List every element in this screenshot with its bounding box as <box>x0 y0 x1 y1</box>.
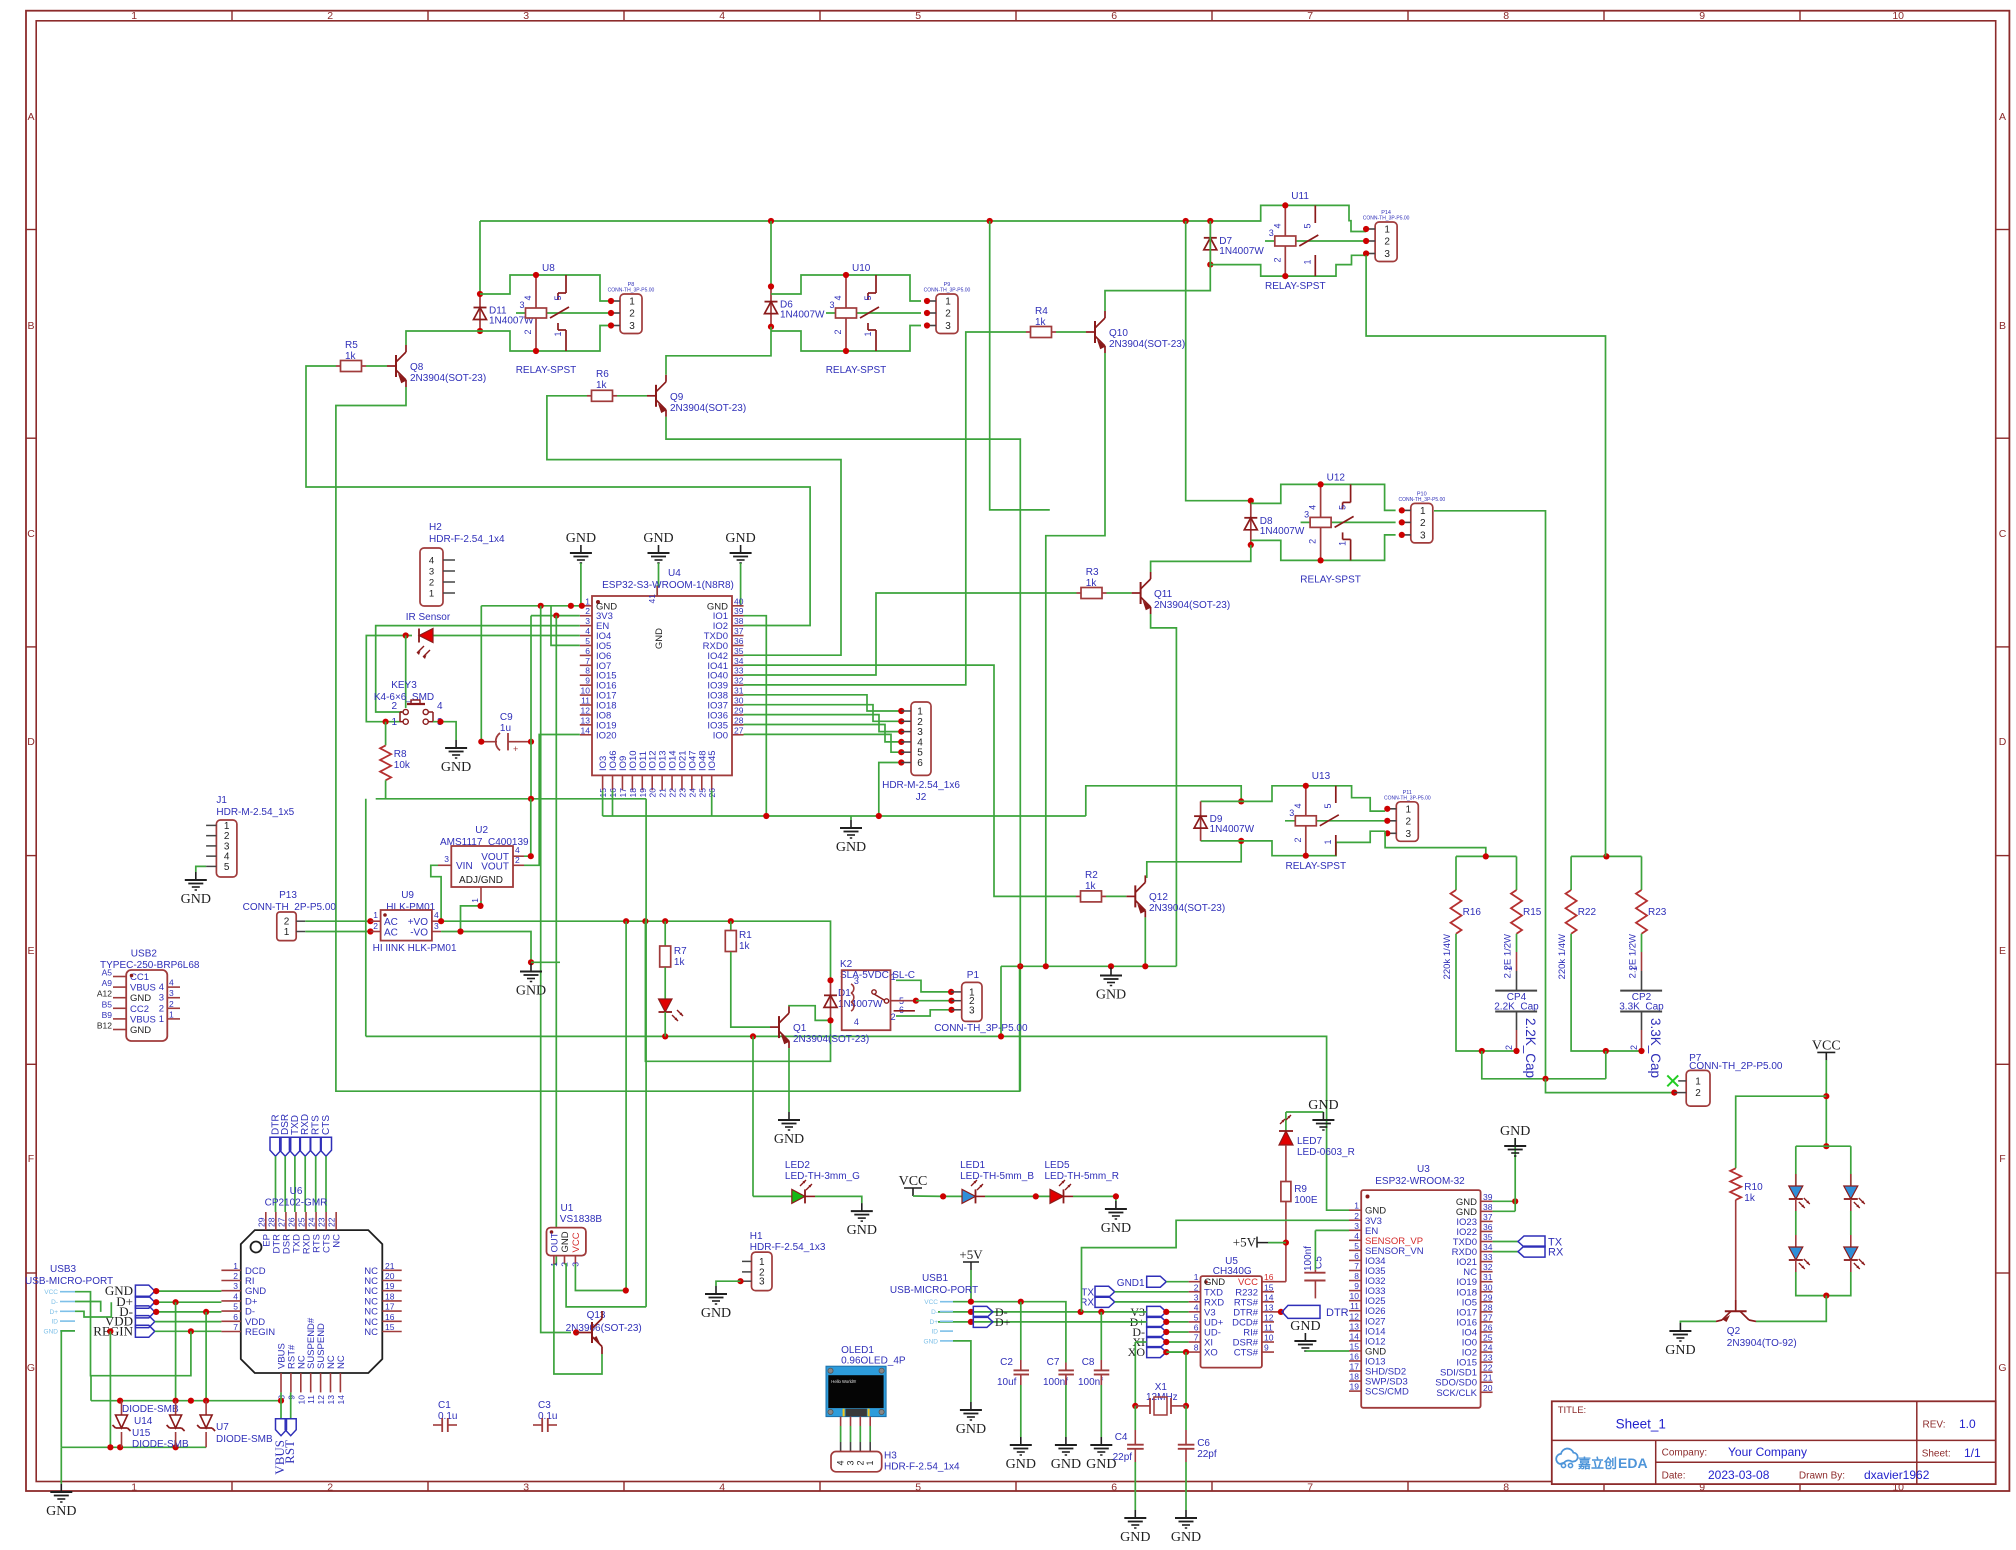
wire LED7 top gnd <box>1286 1111 1324 1113</box>
svg-text:1: 1 <box>1629 966 1639 971</box>
wire J2 bundle <box>744 695 902 711</box>
svg-text:K4-6×6_SMD: K4-6×6_SMD <box>374 692 434 703</box>
diode D8 1N4007W <box>1250 501 1252 545</box>
svg-text:RELAY-SPST: RELAY-SPST <box>1300 574 1361 585</box>
svg-text:2: 2 <box>1420 518 1426 529</box>
wire Q1 emitter <box>788 1048 790 1112</box>
wire Q10 collector <box>1105 221 1210 311</box>
svg-text:DTR: DTR <box>1326 1307 1349 1319</box>
svg-text:8: 8 <box>1503 10 1509 22</box>
ground Q2 <box>1679 1323 1681 1331</box>
svg-text:AC: AC <box>384 917 398 928</box>
ground U9 <box>530 964 532 972</box>
svg-text:Q2: Q2 <box>1727 1326 1741 1337</box>
resistor R1 1k <box>730 921 732 930</box>
svg-text:D+: D+ <box>50 1309 59 1316</box>
wire +VO rail <box>441 921 830 980</box>
svg-text:B12: B12 <box>97 1021 112 1031</box>
svg-text:23: 23 <box>317 1217 327 1227</box>
transistor Q12 2N3904 <box>1134 885 1136 907</box>
wire VCC to R10 <box>1736 1096 1827 1168</box>
svg-text:22pf: 22pf <box>1113 1452 1133 1463</box>
svg-text:CTS#: CTS# <box>1234 1348 1259 1359</box>
wire K2 pin2 to P1 <box>896 1010 952 1016</box>
svg-text:10: 10 <box>1264 1333 1274 1343</box>
svg-text:3: 3 <box>1354 1221 1359 1231</box>
svg-text:HDR-M-2.54_1x6: HDR-M-2.54_1x6 <box>882 780 960 791</box>
svg-text:12: 12 <box>581 705 591 715</box>
svg-text:A5: A5 <box>102 968 113 978</box>
svg-text:1: 1 <box>391 717 397 728</box>
svg-text:14: 14 <box>336 1395 346 1405</box>
svg-text:GND: GND <box>1171 1530 1201 1545</box>
svg-text:34: 34 <box>1483 1242 1493 1252</box>
ground USB1 <box>970 1402 972 1410</box>
net flags TX RX U3 <box>1493 1241 1518 1243</box>
wire Q12 base <box>1106 895 1126 897</box>
svg-text:29: 29 <box>256 1217 266 1227</box>
svg-text:3: 3 <box>1194 1292 1199 1302</box>
svg-text:41: 41 <box>647 594 657 604</box>
svg-text:HDR-F-2.54_1x4: HDR-F-2.54_1x4 <box>884 1462 960 1473</box>
svg-text:6: 6 <box>1111 1482 1117 1494</box>
wire XO row drop <box>1166 1351 1186 1353</box>
svg-text:P1: P1 <box>967 970 980 981</box>
svg-text:31: 31 <box>1483 1272 1493 1282</box>
svg-text:CONN-TH_3P-P5.00: CONN-TH_3P-P5.00 <box>934 1023 1028 1034</box>
svg-text:220k 1/4W: 220k 1/4W <box>1442 934 1453 979</box>
svg-text:R8: R8 <box>394 749 407 760</box>
svg-text:RELAY-SPST: RELAY-SPST <box>1286 861 1347 872</box>
svg-text:1: 1 <box>169 1009 174 1019</box>
svg-text:+: + <box>513 744 518 754</box>
svg-text:7: 7 <box>1307 10 1313 22</box>
ground above U4 right <box>740 545 742 553</box>
svg-text:ESP32-S3-WROOM-1(N8R8): ESP32-S3-WROOM-1(N8R8) <box>602 580 734 591</box>
svg-text:1: 1 <box>1338 541 1348 546</box>
svg-text:2: 2 <box>855 1460 865 1465</box>
svg-text:32: 32 <box>734 676 744 686</box>
svg-text:4: 4 <box>159 982 164 993</box>
svg-text:7: 7 <box>1194 1333 1199 1343</box>
svg-text:2N3904(SOT-23): 2N3904(SOT-23) <box>1149 903 1225 914</box>
svg-text:dxavier1962: dxavier1962 <box>1864 1468 1930 1482</box>
svg-text:11: 11 <box>1350 1301 1359 1311</box>
svg-text:16: 16 <box>385 1312 395 1322</box>
resistor R2 1k <box>1076 895 1081 897</box>
svg-text:GND: GND <box>1006 1457 1036 1472</box>
wire bridge mid <box>1795 1211 1797 1235</box>
svg-text:4: 4 <box>719 1482 725 1494</box>
diode U10_D wire stairs <box>771 275 846 294</box>
svg-text:15: 15 <box>385 1322 395 1332</box>
svg-text:Hello World!!!: Hello World!!! <box>831 1379 856 1384</box>
svg-text:B: B <box>27 320 34 332</box>
svg-text:16: 16 <box>1350 1351 1360 1361</box>
svg-text:KEY3: KEY3 <box>391 680 417 691</box>
svg-text:28: 28 <box>734 715 744 725</box>
svg-text:18: 18 <box>1350 1372 1360 1382</box>
svg-text:2: 2 <box>1308 539 1318 544</box>
ground LED7 <box>1322 1112 1324 1120</box>
svg-text:1: 1 <box>759 1257 765 1268</box>
svg-text:10: 10 <box>296 1395 306 1405</box>
svg-text:GND: GND <box>1500 1124 1530 1139</box>
svg-text:VCC: VCC <box>899 1174 928 1189</box>
svg-text:1u: 1u <box>500 723 511 734</box>
transistor Q11 2N3904 <box>1140 582 1142 604</box>
wire 3V3 route <box>1082 1220 1350 1312</box>
svg-text:GND: GND <box>847 1223 877 1238</box>
svg-text:P13: P13 <box>279 890 297 901</box>
wire U1 pin3 vcc <box>575 1264 625 1291</box>
svg-text:1: 1 <box>585 596 590 606</box>
wire D- row <box>1009 1321 1011 1323</box>
svg-text:10: 10 <box>1350 1291 1360 1301</box>
svg-text:100nf: 100nf <box>1078 1377 1103 1388</box>
diode D1 1N4007W <box>830 980 832 1020</box>
svg-text:U3: U3 <box>1417 1164 1430 1175</box>
svg-text:K2: K2 <box>840 959 853 970</box>
svg-text:ESP32-WROOM-32: ESP32-WROOM-32 <box>1375 1176 1465 1187</box>
svg-text:2: 2 <box>629 309 635 320</box>
svg-text:13: 13 <box>1264 1302 1274 1312</box>
transistor Q10 2N3904 <box>1094 321 1096 343</box>
svg-text:5: 5 <box>224 862 230 873</box>
wire U2 vout2 to IO20 <box>524 735 580 866</box>
svg-text:GND: GND <box>924 1338 939 1345</box>
svg-text:GND: GND <box>181 892 211 907</box>
svg-text:嘉立创: 嘉立创 <box>1577 1456 1617 1471</box>
svg-text:R6: R6 <box>596 369 609 380</box>
ground above U4 left <box>580 545 582 553</box>
resistor R4 1k <box>1026 331 1031 333</box>
svg-text:Q11: Q11 <box>1154 589 1173 600</box>
wire GND emitter rail <box>1001 965 1176 967</box>
svg-text:37: 37 <box>1483 1212 1493 1222</box>
svg-text:LED1: LED1 <box>960 1160 985 1171</box>
resistor R22 220k <box>1570 856 1572 890</box>
wire bridge to Q2 collector <box>1756 1296 1826 1322</box>
svg-text:24: 24 <box>1483 1343 1493 1353</box>
svg-text:1k: 1k <box>739 941 751 952</box>
svg-text:RELAY-SPST: RELAY-SPST <box>1265 281 1326 292</box>
wire V3 row <box>938 1311 1147 1313</box>
svg-text:1: 1 <box>1194 1272 1199 1282</box>
svg-text:U8: U8 <box>542 263 555 274</box>
svg-text:1k: 1k <box>1086 578 1098 589</box>
svg-text:25: 25 <box>297 1217 307 1227</box>
svg-text:0.96OLED_4P: 0.96OLED_4P <box>841 1356 906 1367</box>
wire R2 feed from IO41 <box>744 665 1077 896</box>
svg-text:CONN-TH_3P-P5.00: CONN-TH_3P-P5.00 <box>924 288 971 294</box>
wire top rail <box>480 205 1285 221</box>
wire H1 pin3 gnd <box>716 1281 741 1286</box>
svg-text:F: F <box>28 1153 34 1165</box>
svg-text:VS1838B: VS1838B <box>560 1214 603 1225</box>
svg-text:40: 40 <box>734 596 744 606</box>
svg-text:U11: U11 <box>1291 191 1309 202</box>
svg-text:C: C <box>27 528 35 540</box>
wire CP2 bottom rail <box>1606 1050 1642 1052</box>
svg-text:2: 2 <box>1504 1045 1514 1050</box>
svg-text:3: 3 <box>429 567 434 578</box>
svg-text:3: 3 <box>444 854 449 864</box>
wire 3V3 row <box>531 615 580 617</box>
svg-text:27: 27 <box>276 1217 286 1227</box>
wire V_A down to C9 <box>480 606 482 742</box>
svg-text:Q12: Q12 <box>1149 892 1168 903</box>
svg-text:XO: XO <box>1204 1348 1218 1359</box>
svg-text:3: 3 <box>629 321 635 332</box>
wire U11 net down right <box>1366 255 1605 856</box>
svg-text:13: 13 <box>581 715 591 725</box>
svg-text:Company:: Company: <box>1662 1448 1708 1459</box>
ground C2 <box>1020 1437 1022 1445</box>
svg-text:3: 3 <box>1269 228 1274 238</box>
wire R10 to Q2 base <box>1735 1200 1737 1300</box>
svg-text:12: 12 <box>316 1395 326 1405</box>
svg-text:R1: R1 <box>739 930 752 941</box>
svg-text:5: 5 <box>1194 1312 1199 1322</box>
svg-text:13: 13 <box>326 1395 336 1405</box>
svg-text:2023-03-08: 2023-03-08 <box>1708 1468 1770 1482</box>
wire U2 vout4 <box>524 799 531 856</box>
ground J2 rail <box>850 816 852 820</box>
svg-text:U2: U2 <box>475 825 488 836</box>
svg-text:VBUS: VBUS <box>130 983 156 994</box>
wire Q12 emitter <box>1144 917 1146 966</box>
relay U10 RELAY-SPST <box>845 275 847 351</box>
ground H1 <box>715 1286 717 1294</box>
svg-text:22: 22 <box>1483 1363 1493 1373</box>
wire Q11 emitter <box>1151 614 1177 966</box>
svg-text:G: G <box>1998 1362 2006 1374</box>
wire U11 bottom stair <box>1210 265 1285 277</box>
svg-text:3: 3 <box>434 921 439 931</box>
svg-text:33: 33 <box>1483 1252 1493 1262</box>
diode D6 1N4007W <box>770 287 772 327</box>
svg-text:8: 8 <box>1194 1343 1199 1353</box>
resistor R8 10k <box>385 722 387 746</box>
svg-text:9: 9 <box>1264 1343 1269 1353</box>
svg-text:2: 2 <box>1293 837 1303 842</box>
wire CP4 bottom rail <box>1482 1050 1517 1052</box>
svg-text:USB3: USB3 <box>50 1264 77 1275</box>
connector H3 HDR-F-2.54_1x4 <box>831 1452 882 1472</box>
svg-text:1N4007W: 1N4007W <box>1219 246 1264 257</box>
svg-text:AC: AC <box>384 928 398 939</box>
capacitor CP2 3.3K_Cap <box>1641 971 1643 991</box>
wire Q9 emitter <box>666 417 1020 1091</box>
svg-text:+5V: +5V <box>1233 1235 1257 1250</box>
svg-text:RX: RX <box>1548 1247 1564 1259</box>
wire U13 common <box>1285 820 1385 822</box>
svg-text:CONN-TH_3P-P5.00: CONN-TH_3P-P5.00 <box>608 288 655 294</box>
svg-text:GND: GND <box>130 993 151 1004</box>
svg-text:23: 23 <box>1483 1353 1493 1363</box>
svg-text:VIN: VIN <box>456 861 473 872</box>
svg-text:NC: NC <box>332 1234 343 1248</box>
connector J2 HDR-M-2.54_1x6 <box>911 702 931 775</box>
svg-text:OUT: OUT <box>550 1232 561 1252</box>
svg-text:A: A <box>27 111 34 123</box>
diode D11 1N4007W <box>479 294 481 331</box>
svg-text:Q10: Q10 <box>1109 328 1128 339</box>
svg-text:R10: R10 <box>1744 1182 1763 1193</box>
led D-bridge 2 <box>1850 1174 1852 1186</box>
svg-text:1: 1 <box>470 898 480 903</box>
svg-text:CP2102-GMR: CP2102-GMR <box>265 1198 328 1209</box>
led D-bridge 1 <box>1795 1174 1797 1186</box>
wire LED2 cathode gnd <box>815 1196 862 1203</box>
svg-text:1.0: 1.0 <box>1959 1417 1976 1431</box>
svg-text:1: 1 <box>945 297 951 308</box>
svg-text:1N4007W: 1N4007W <box>838 999 883 1010</box>
svg-text:U4: U4 <box>668 568 681 579</box>
svg-text:VBUS: VBUS <box>130 1014 156 1025</box>
svg-text:2: 2 <box>891 1012 896 1022</box>
svg-text:3: 3 <box>159 993 164 1004</box>
svg-text:11: 11 <box>581 696 590 706</box>
svg-text:+VO: +VO <box>408 917 429 928</box>
svg-text:2N3904(SOT-23): 2N3904(SOT-23) <box>410 373 486 384</box>
svg-text:3: 3 <box>829 300 834 310</box>
svg-text:U15: U15 <box>132 1428 151 1439</box>
svg-text:R7: R7 <box>674 946 687 957</box>
svg-text:5: 5 <box>233 1302 238 1312</box>
wire D+ row <box>938 1321 1147 1323</box>
wire K2 pin1 to P1 <box>896 980 951 992</box>
svg-text:C4: C4 <box>1115 1432 1128 1443</box>
wire relay U10 common <box>826 312 921 314</box>
svg-text:Q1: Q1 <box>793 1023 807 1034</box>
wire vert taps <box>175 1302 177 1401</box>
svg-text:30: 30 <box>1483 1282 1493 1292</box>
resistor R7 1k <box>664 921 666 946</box>
wire Q9 collector <box>666 327 771 375</box>
svg-text:2N3904(SOT-23): 2N3904(SOT-23) <box>1154 600 1230 611</box>
svg-text:3: 3 <box>969 1005 975 1016</box>
wire x646 drop <box>645 799 647 1307</box>
wire R4 feed from IO39 <box>744 332 1027 685</box>
wire gnd drop bottom-left <box>60 1447 62 1484</box>
svg-text:IO45: IO45 <box>707 750 718 771</box>
wire left vert to rail <box>365 799 367 1037</box>
svg-text:35: 35 <box>734 646 744 656</box>
svg-text:1: 1 <box>373 910 378 920</box>
svg-text:B5: B5 <box>102 999 113 1009</box>
svg-text:C7: C7 <box>1047 1357 1060 1368</box>
diode U7 DIODE-SMB <box>205 1401 207 1415</box>
svg-text:1k: 1k <box>345 351 357 362</box>
ground LED2 <box>861 1203 863 1211</box>
svg-text:5: 5 <box>915 1482 921 1494</box>
svg-text:1: 1 <box>1695 1076 1701 1087</box>
svg-text:D: D <box>27 736 35 748</box>
svg-text:220k 1/4W: 220k 1/4W <box>1557 934 1568 979</box>
wire P11 pin3 feed to bank <box>1385 831 1486 856</box>
ic U4 top pin 41 <box>656 586 658 596</box>
wire P13 to U9 <box>305 920 370 922</box>
svg-text:33: 33 <box>734 666 744 676</box>
svg-text:B9: B9 <box>102 1010 113 1020</box>
svg-text:U7: U7 <box>216 1422 229 1433</box>
svg-text:B: B <box>1999 320 2006 332</box>
svg-text:C: C <box>1999 528 2007 540</box>
svg-text:IO0: IO0 <box>713 730 728 741</box>
led bridge top rail <box>1796 1145 1851 1147</box>
svg-text:17: 17 <box>1350 1362 1360 1372</box>
wire U13 stairs <box>1241 786 1306 802</box>
ground U5 DTR area <box>1304 1333 1306 1341</box>
svg-text:CONN-TH_3P-P5.00: CONN-TH_3P-P5.00 <box>1363 216 1410 222</box>
svg-text:27: 27 <box>734 725 744 735</box>
wire R22 bottom <box>1571 934 1606 1051</box>
svg-text:4: 4 <box>233 1291 238 1301</box>
svg-text:3: 3 <box>523 1482 529 1494</box>
svg-text:11: 11 <box>1264 1322 1273 1332</box>
svg-text:NC: NC <box>336 1355 347 1369</box>
svg-text:RST: RST <box>282 1440 297 1464</box>
svg-text:2: 2 <box>1629 1045 1639 1050</box>
svg-text:1: 1 <box>863 331 873 336</box>
wire U4 bottom pins to rail <box>602 790 604 816</box>
svg-text:HI IINK HLK-PM01: HI IINK HLK-PM01 <box>373 943 457 954</box>
led LED red below R7 <box>664 968 666 1000</box>
svg-text:C2: C2 <box>1000 1357 1013 1368</box>
svg-text:GND: GND <box>643 531 673 546</box>
svg-text:6: 6 <box>1354 1251 1359 1261</box>
svg-text:4: 4 <box>1354 1231 1359 1241</box>
svg-text:21: 21 <box>658 788 668 798</box>
svg-text:Q9: Q9 <box>670 392 684 403</box>
wire P10 pin1 to long bus <box>1434 511 1546 1079</box>
svg-text:1k: 1k <box>1085 881 1097 892</box>
svg-text:1: 1 <box>1420 506 1426 517</box>
svg-text:12: 12 <box>1264 1312 1274 1322</box>
wire D6 drop <box>770 221 772 287</box>
svg-text:R5: R5 <box>345 340 358 351</box>
svg-text:HDR-M-2.54_1x5: HDR-M-2.54_1x5 <box>216 807 294 818</box>
resistor R6 1k <box>587 395 592 397</box>
svg-text:36: 36 <box>1483 1222 1493 1232</box>
svg-text:R16: R16 <box>1463 907 1482 918</box>
svg-text:2N3904(SOT-23): 2N3904(SOT-23) <box>1109 339 1185 350</box>
svg-text:RELAY-SPST: RELAY-SPST <box>826 365 887 376</box>
svg-text:U12: U12 <box>1327 472 1346 483</box>
svg-text:100nf: 100nf <box>1303 1246 1314 1271</box>
wire U2 vin <box>431 865 441 921</box>
wire R23 to CP2 <box>1641 934 1643 952</box>
wire XI row drop <box>1135 1341 1146 1343</box>
wire U12 feed from rail <box>1186 221 1251 501</box>
resistor R15 2.2E <box>1516 856 1518 890</box>
svg-text:2: 2 <box>1272 257 1282 262</box>
svg-text:26: 26 <box>286 1217 296 1227</box>
wire R3 feed from IO40 <box>744 593 1077 675</box>
svg-text:+5V: +5V <box>959 1247 983 1262</box>
svg-text:7: 7 <box>1307 1482 1313 1494</box>
svg-text:D+: D+ <box>930 1319 939 1326</box>
svg-text:CTS: CTS <box>321 1115 332 1135</box>
svg-text:Sheet_1: Sheet_1 <box>1616 1417 1666 1432</box>
wire U1 pin2 gnd <box>565 1264 647 1307</box>
svg-text:29: 29 <box>1483 1292 1493 1302</box>
wire R9 to U5 VCC <box>1285 1202 1287 1282</box>
svg-text:14: 14 <box>1264 1292 1274 1302</box>
ground KEY3 <box>455 740 457 748</box>
